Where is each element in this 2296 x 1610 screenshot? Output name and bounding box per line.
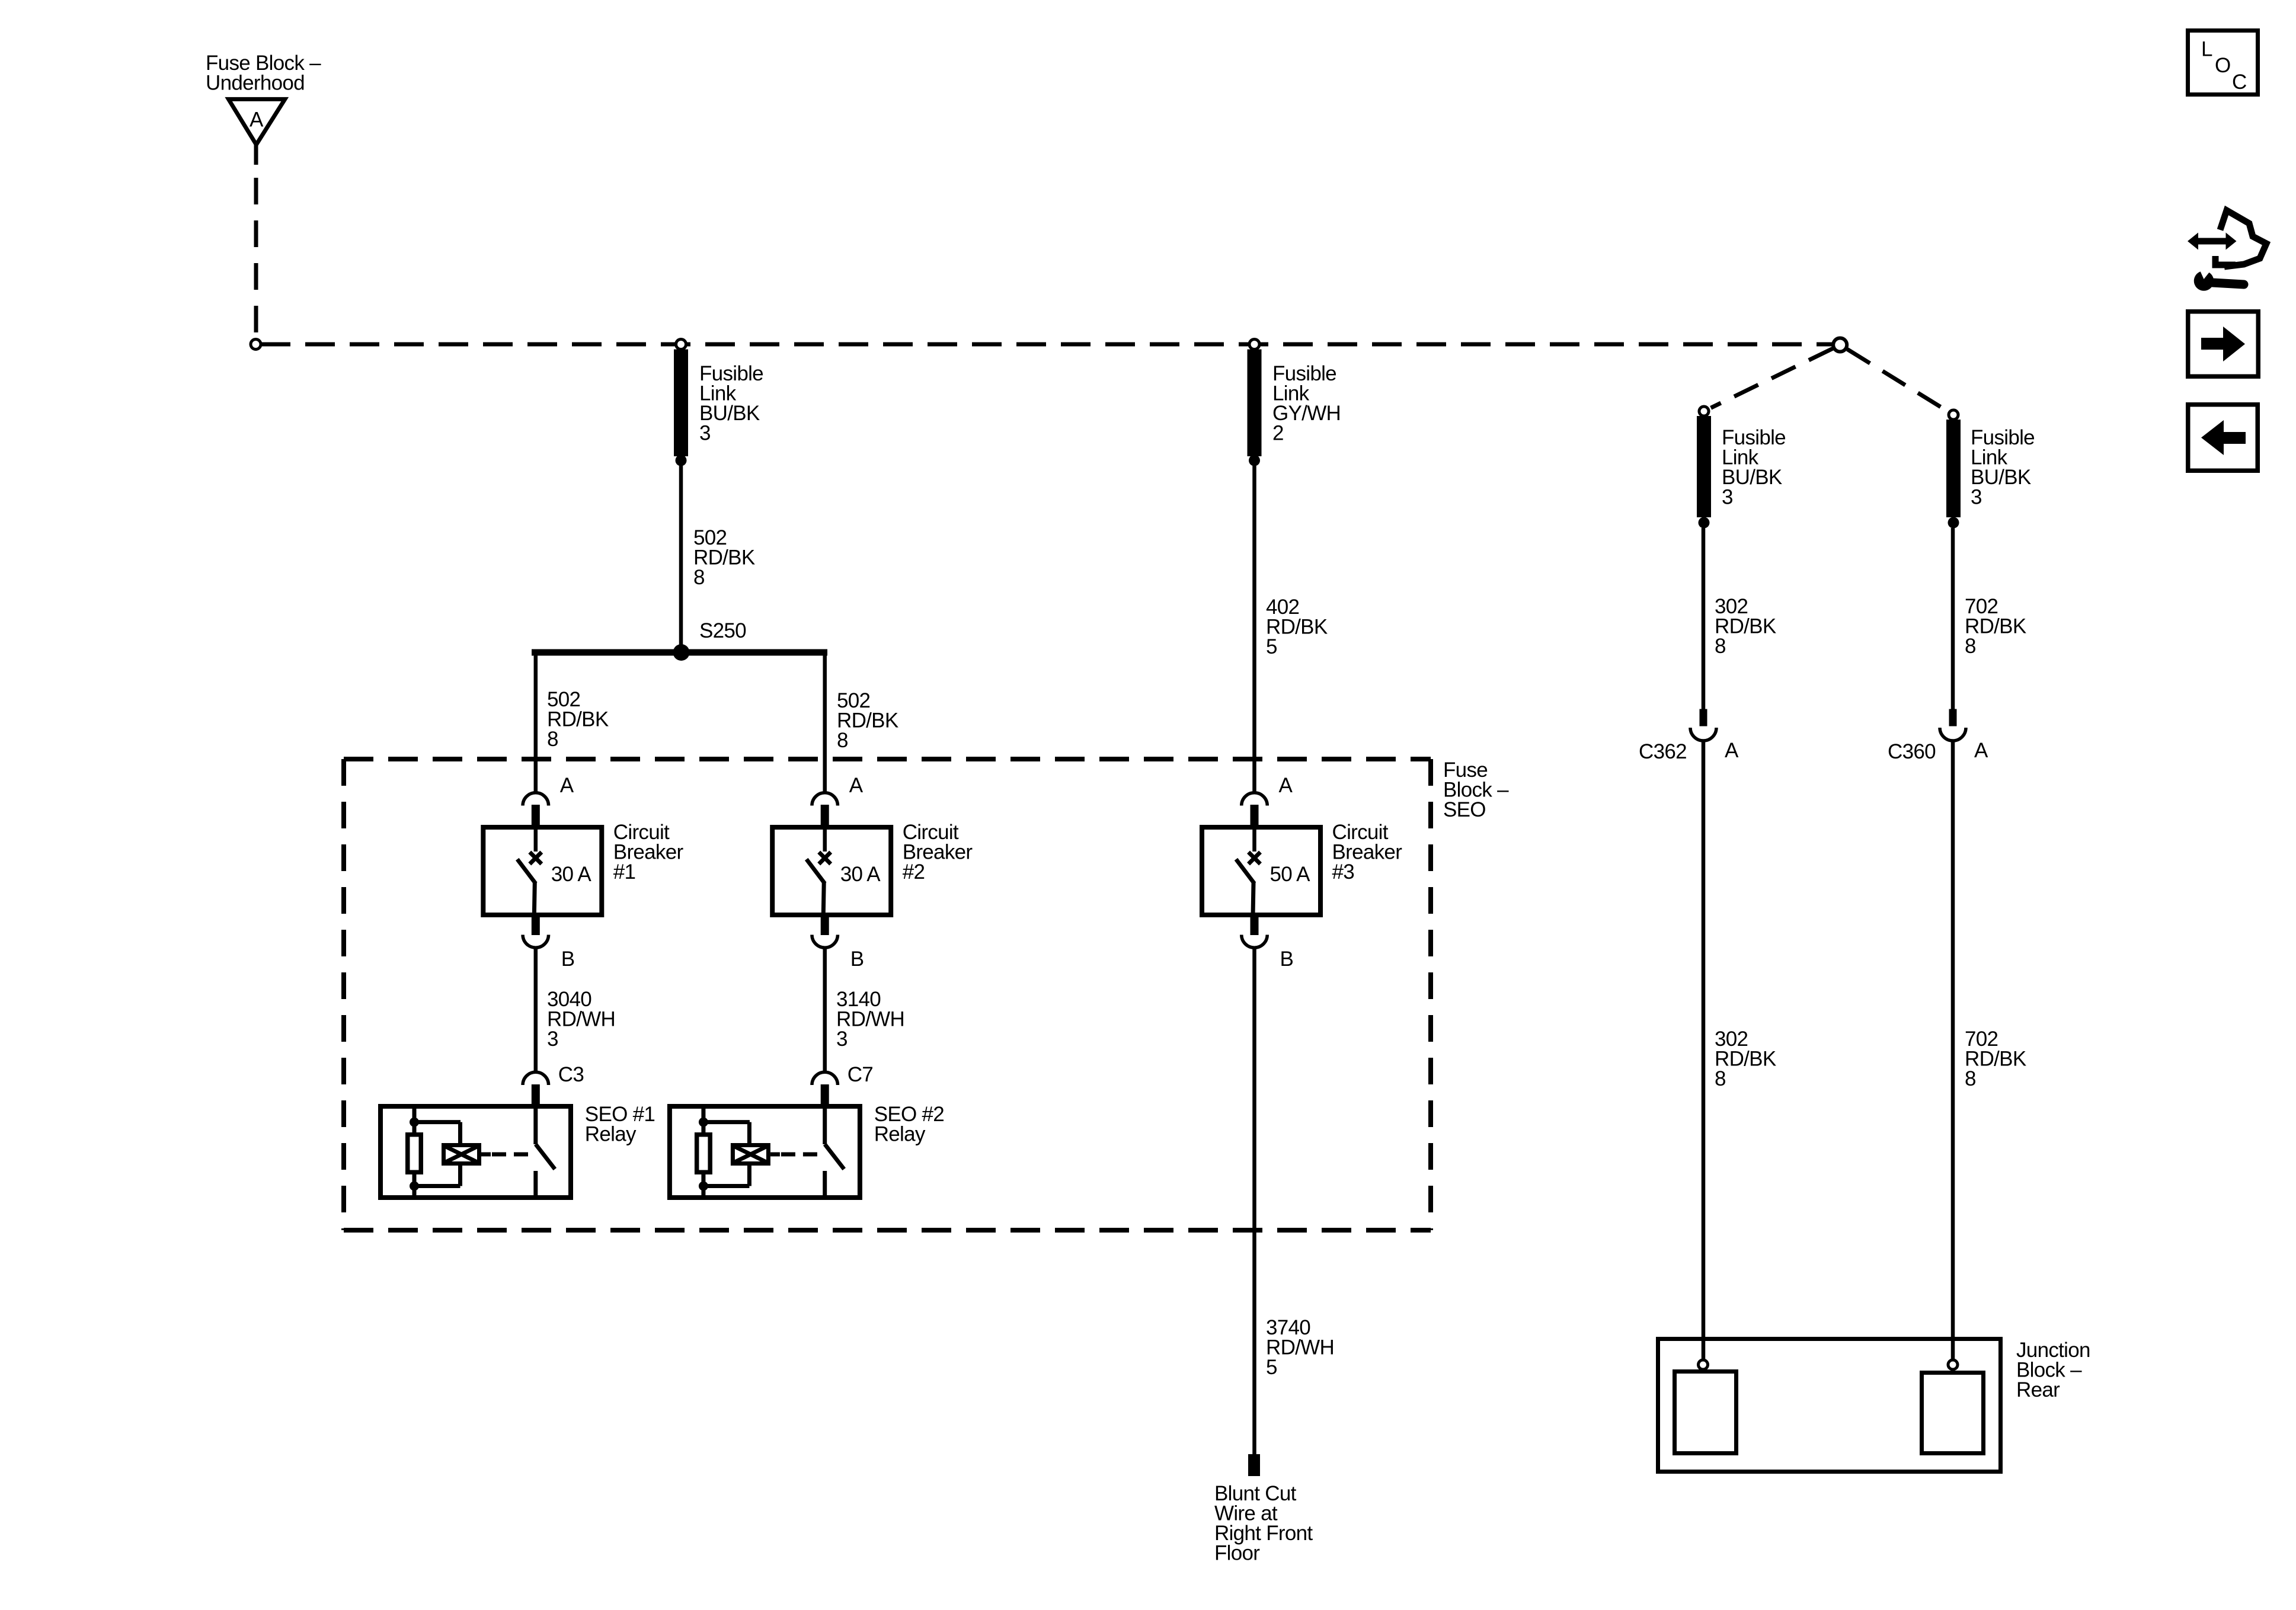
terminal: blunt cut wire end bar	[1248, 1454, 1260, 1476]
wire: solid stub below triangle A	[254, 143, 258, 165]
pin label: connector C7	[848, 1063, 873, 1086]
connector pin A of circuit breaker #1 (female arc)	[523, 793, 549, 826]
node: bus start terminal (open circle)	[251, 340, 261, 350]
svg-text:3: 3	[699, 422, 711, 445]
wire: dashed diagonal branch to fusible link at C362	[1711, 348, 1833, 408]
svg-text:3: 3	[547, 1028, 558, 1051]
svg-text:A: A	[849, 774, 864, 797]
svg-text:B: B	[1280, 948, 1294, 971]
circuit breaker #2 (30 A)	[772, 827, 891, 916]
wire 3040 RD/WH 3 (breaker #1 pin B to SEO #1 relay C3)	[534, 949, 538, 1073]
connector pin A of circuit breaker #2 (female arc)	[812, 793, 838, 826]
circuit breaker #1 (30 A)	[483, 827, 602, 916]
svg-text:L: L	[2201, 38, 2212, 61]
svg-text:A: A	[1279, 774, 1293, 797]
svg-text:Floor: Floor	[1214, 1542, 1260, 1565]
wire 402 RD/BK 5 (fusible link to circuit breaker #3 pin A)	[1252, 466, 1256, 792]
label: Blunt Cut Wire at Right Front Floor	[1214, 1482, 1313, 1565]
value label: wire 302 RD/BK 8 (upper)	[1715, 595, 1776, 658]
svg-text:A: A	[1725, 739, 1739, 762]
value label: fusible link GY/WH 2	[1272, 362, 1341, 445]
svg-text:8: 8	[693, 566, 705, 589]
svg-text:#1: #1	[613, 860, 636, 884]
wire 502 RD/BK 8 left branch (S250 to circuit breaker #1 pin A)	[534, 652, 538, 792]
pin label: connector C3	[558, 1063, 584, 1086]
wire 702 RD/BK 8 (C360 to junction block)	[1951, 741, 1955, 1361]
svg-text:C3: C3	[558, 1063, 584, 1086]
svg-text:Relay: Relay	[874, 1123, 926, 1146]
svg-text:B: B	[850, 948, 864, 971]
value label: wire 502 RD/BK 8 (left branch)	[547, 688, 609, 751]
svg-text:B: B	[561, 948, 575, 971]
label: Fuse Block - Underhood	[206, 52, 321, 95]
terminal ring (right wire entry)	[1948, 1360, 1958, 1369]
icon: back arrow box	[2188, 405, 2258, 471]
svg-text:5: 5	[1266, 1356, 1277, 1379]
svg-text:50 A: 50 A	[1270, 863, 1311, 886]
value label: fusible link BU/BK 3 (C362 branch)	[1722, 426, 1786, 509]
value label: wire 702 RD/BK 8 (upper)	[1965, 595, 2026, 658]
label: splice S250	[699, 619, 746, 642]
svg-text:C: C	[2232, 71, 2247, 94]
icon: forward arrow box	[2188, 312, 2259, 377]
svg-text:O: O	[2215, 54, 2231, 77]
svg-text:30 A: 30 A	[551, 863, 592, 886]
label: Junction Block - Rear	[2016, 1339, 2090, 1401]
connector C360 (in-line, pin A)	[1940, 709, 1966, 741]
svg-text:3: 3	[1722, 486, 1733, 509]
connector pin A of circuit breaker #3 (female arc)	[1242, 793, 1268, 826]
svg-text:A: A	[250, 108, 264, 132]
relay SEO #2	[670, 1106, 860, 1198]
svg-text:2: 2	[1272, 422, 1284, 445]
fusible link BU/BK 3 (left)	[674, 340, 688, 466]
svg-text:#2: #2	[903, 860, 925, 884]
label: SEO #1 Relay	[585, 1103, 655, 1146]
circuit breaker #3 (50 A)	[1202, 827, 1320, 916]
svg-text:C7: C7	[848, 1063, 873, 1086]
power feed symbol A (triangle), Fuse Block - Underhood	[229, 99, 285, 145]
value label: wire 302 RD/BK 8 (lower)	[1715, 1028, 1776, 1090]
value label: wire 3040 RD/WH 3	[547, 988, 615, 1051]
svg-text:C362: C362	[1639, 740, 1687, 763]
value label: wire 502 RD/BK 8 (right branch)	[837, 689, 898, 752]
svg-text:S250: S250	[699, 619, 746, 642]
svg-text:8: 8	[547, 728, 558, 751]
pin label: connector C362	[1639, 740, 1687, 763]
wire: dashed diagonal branch to fusible link at C360	[1847, 349, 1947, 411]
wire 3140 RD/WH 3 (breaker #2 pin B to SEO #2 relay C7)	[823, 949, 827, 1073]
svg-text:3: 3	[836, 1028, 848, 1051]
svg-text:3: 3	[1971, 486, 1982, 509]
svg-text:A: A	[560, 774, 574, 797]
junction block - rear (outer box)	[1658, 1339, 2001, 1472]
wire 702 RD/BK 8 (fusible link to C360)	[1951, 528, 1955, 709]
icon: data link / diagnostic symbol (double arrow, body outline, wrench)	[2188, 210, 2266, 291]
wire 302 RD/BK 8 (fusible link to C362)	[1702, 528, 1706, 709]
enclosure: Fuse Block - SEO (dashed box)	[344, 759, 1431, 1230]
fusible link BU/BK 3 (at C362)	[1697, 406, 1711, 529]
svg-text:Rear: Rear	[2016, 1378, 2060, 1401]
svg-text:30 A: 30 A	[840, 863, 881, 886]
label: Circuit Breaker #3	[1332, 821, 1403, 884]
connector pin B of circuit breaker #1 (female arc)	[523, 917, 549, 948]
junction block terminal cavity (left)	[1675, 1372, 1737, 1454]
wire 502 RD/BK 8 right branch (S250 to circuit breaker #2 pin A)	[823, 652, 827, 792]
svg-text:SEO: SEO	[1443, 798, 1486, 821]
wire 502 RD/BK 8 (fusible link to S250)	[679, 466, 683, 652]
pin label: connector C360	[1888, 740, 1936, 763]
fusible link BU/BK 3 (at C360)	[1946, 410, 1961, 529]
value label: fusible link BU/BK 3 (C360 branch)	[1971, 426, 2035, 509]
svg-text:8: 8	[1715, 635, 1726, 658]
svg-text:8: 8	[1965, 635, 1976, 658]
node: bus right splice (open circle)	[1833, 338, 1847, 352]
connector C7 arc at SEO #2 relay	[812, 1072, 838, 1106]
icon: LOC reference box	[2188, 31, 2258, 95]
value label: wire 402 RD/BK 5	[1266, 596, 1328, 658]
wire: dashed battery feed bus (horizontal)	[261, 343, 1833, 347]
label: Circuit Breaker #1	[613, 821, 684, 884]
label: Fuse Block - SEO	[1443, 758, 1509, 821]
relay SEO #1	[380, 1106, 571, 1198]
wire 302 RD/BK 8 (C362 to junction block)	[1702, 741, 1706, 1361]
label: Circuit Breaker #2	[903, 821, 973, 884]
connector pin B of circuit breaker #2 (female arc)	[812, 917, 838, 948]
value label: wire 3140 RD/WH 3	[836, 988, 904, 1051]
svg-text:C360: C360	[1888, 740, 1936, 763]
value label: wire 502 RD/BK 8 (upper)	[693, 526, 755, 589]
connector C3 arc at SEO #1 relay	[523, 1072, 549, 1106]
connector pin B of circuit breaker #3 (female arc)	[1242, 917, 1268, 948]
svg-text:5: 5	[1266, 635, 1277, 658]
svg-text:8: 8	[1715, 1067, 1726, 1090]
svg-text:8: 8	[1965, 1067, 1976, 1090]
label: SEO #2 Relay	[874, 1103, 944, 1146]
wire 3740 RD/WH 5 (breaker #3 pin B to blunt cut wire)	[1252, 949, 1256, 1454]
svg-text:8: 8	[837, 729, 848, 752]
svg-text:Underhood: Underhood	[206, 72, 305, 95]
value label: wire 702 RD/BK 8 (lower)	[1965, 1028, 2026, 1090]
fusible link GY/WH 2	[1248, 340, 1262, 466]
junction block terminal cavity (right)	[1922, 1373, 1984, 1454]
svg-text:Relay: Relay	[585, 1123, 637, 1146]
terminal ring (left wire entry)	[1699, 1360, 1708, 1369]
value label: fusible link BU/BK 3 (left)	[699, 362, 763, 445]
value label: wire 3740 RD/WH 5	[1266, 1316, 1334, 1379]
connector C362 (in-line, pin A)	[1690, 709, 1716, 741]
node S250 (junction dot)	[673, 644, 690, 661]
wire: dashed drop from triangle A to bus node	[254, 178, 258, 338]
svg-text:A: A	[1974, 739, 1988, 762]
wire: S250 splice rail	[532, 649, 827, 656]
svg-text:#3: #3	[1332, 860, 1355, 884]
